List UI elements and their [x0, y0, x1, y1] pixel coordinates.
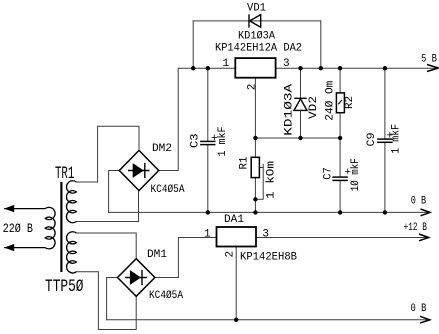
wire DM1 plus output right vertex riser to +12V line: [156, 238, 217, 278]
wire DM2 top vertex AC link to upper secondary top lead: [98, 126, 139, 182]
svg-text:5 B: 5 B: [421, 53, 437, 65]
svg-text:KC4Ø5A: KC4Ø5A: [149, 290, 183, 302]
svg-text:KP142EH8B: KP142EH8B: [240, 252, 297, 264]
wire R1 top lead: [254, 138, 256, 157]
wire 0V rail y=212.4 to arrow: [109, 211, 429, 213]
svg-text:24Ø Om: 24Ø Om: [325, 80, 337, 120]
svg-text:KD1Ø3A: KD1Ø3A: [238, 31, 275, 43]
svg-text:1Ø mkF: 1Ø mkF: [350, 158, 362, 191]
arrow output +12V: [419, 234, 429, 241]
wire upper secondary top lead: [76, 181, 97, 183]
svg-text:2: 2: [246, 84, 258, 91]
junction 0V rail at C9: [383, 210, 387, 214]
transformer TR1 upper secondary winding: [66, 181, 76, 223]
wire R1 trimmer tap: [259, 167, 263, 169]
svg-text:1 mkF: 1 mkF: [217, 127, 229, 157]
diode VD1: [249, 14, 261, 27]
wire upper secondary bottom lead to DM2 bottom vertex: [76, 190, 138, 222]
diode inside DM2: [128, 163, 150, 178]
regulator DA2 box: [235, 58, 275, 78]
junction 0V rail at C7: [338, 210, 342, 214]
wire VD2 branch from bus to cathode bar: [300, 68, 302, 98]
svg-text:DA1: DA1: [224, 214, 244, 226]
arrow output 5V: [427, 65, 438, 72]
junction node line at VD2 anode: [298, 136, 302, 140]
junction 0V rail at C3: [206, 210, 210, 214]
svg-text:1: 1: [204, 228, 211, 240]
svg-text:R1: R1: [239, 156, 251, 169]
capacitor C9 plates: [377, 139, 392, 142]
svg-text:1 kOm: 1 kOm: [266, 161, 278, 199]
svg-text:3: 3: [262, 228, 269, 240]
wire DM2 plus output right vertex to riser: [159, 170, 179, 172]
resistor R1 (trimmer) body: [251, 157, 259, 177]
wire lower secondary top lead to DM1 top vertex: [76, 233, 136, 258]
svg-text:1 mkF: 1 mkF: [391, 124, 403, 154]
rectifier bridge DM2: [119, 150, 158, 190]
wire +12V line DA1 pin3 to arrow: [256, 237, 428, 239]
wire lower secondary bottom lead to DM1 bottom vertex: [76, 272, 136, 330]
wire DM2 minus output: left vertex to 0V rail start: [109, 171, 120, 213]
svg-text:R2: R2: [344, 96, 356, 109]
transformer TR1 lower secondary winding: [67, 232, 77, 273]
wire DM1 minus output left vertex to bottom 0V rail: [107, 278, 117, 320]
svg-text:+12 B: +12 B: [404, 222, 428, 234]
junction node on bus at C3: [206, 66, 210, 70]
svg-text:DM1: DM1: [147, 249, 167, 261]
wire C3 branch x=207.8 bus to top plate: [207, 68, 209, 140]
junction node on bus at R2: [338, 66, 342, 70]
rectifier bridge DM1: [118, 259, 155, 297]
wire VD1 right riser x=320.8 down to bus: [320, 21, 322, 68]
junction node line at R1 top: [253, 136, 257, 140]
capacitor C7 plates: [332, 177, 347, 180]
resistor R2 body: [336, 93, 344, 113]
junction node on bus at VD1 right: [319, 66, 323, 70]
wire C9 bottom plate to 0V rail: [384, 143, 386, 212]
wire R1 trimmer tap bar and down link: [255, 164, 263, 199]
svg-text:0 B: 0 B: [411, 196, 427, 208]
svg-text:DM2: DM2: [152, 143, 172, 155]
wire VD1 top horizontal line: [193, 20, 321, 22]
svg-text:KC4Ø5A: KC4Ø5A: [151, 184, 185, 196]
wire VD1 bypass left riser x=193.2 from bus to top line: [192, 21, 194, 68]
arrow 220V top (left filled): [4, 205, 14, 212]
svg-text:TR1: TR1: [55, 164, 74, 184]
svg-text:3: 3: [283, 58, 290, 70]
wire C7 bottom plate to 0V rail: [339, 182, 341, 213]
diode VD2: [294, 98, 307, 110]
wire R1 bottom lead: [254, 178, 256, 213]
svg-text:TTP5Ø: TTP5Ø: [45, 277, 84, 297]
arrow output 0V lower: [420, 316, 430, 323]
svg-text:C9: C9: [366, 133, 378, 147]
junction node on bus at VD2: [298, 66, 302, 70]
junction node on bus at VD1 left: [191, 66, 195, 70]
wire C9 branch from bus to top plate: [384, 68, 386, 138]
svg-text:C3: C3: [189, 134, 201, 149]
wire DA1 pin2 down to bottom 0V rail: [235, 247, 237, 320]
wire DA2 pin2 down to node line y=138: [254, 78, 256, 138]
wire primary leads 220V: [4, 209, 45, 248]
wire R2 bottom lead to node line: [339, 113, 341, 138]
junction R1 tap joint: [253, 197, 257, 201]
svg-text:VD2: VD2: [308, 96, 320, 119]
wire node line y=138 R1 to R2: [255, 137, 340, 139]
svg-text:2: 2: [225, 251, 237, 258]
wire VD2 anode to node line: [300, 110, 302, 138]
resistor R2 power mark: [338, 100, 342, 104]
diode inside DM1: [125, 270, 147, 285]
wire C3 bottom plate to 0V rail: [207, 146, 209, 213]
junction node line at R2 bottom C7: [338, 136, 342, 140]
wire C7 branch from node line to top plate: [339, 138, 341, 176]
svg-text:KP142EH12A DA2: KP142EH12A DA2: [215, 43, 302, 55]
transformer TR1 core: [60, 182, 62, 272]
wire bottom 0V rail y=319.8 to arrow: [107, 319, 429, 321]
svg-text:KD1Ø3A: KD1Ø3A: [284, 83, 296, 136]
wire R2 top lead from bus: [339, 68, 341, 93]
arrow 220V bottom (left filled): [4, 244, 14, 251]
arrow output 0V upper: [421, 209, 431, 216]
junction bottom 0V rail at DA1 pin2: [234, 318, 238, 322]
svg-text:C7: C7: [323, 167, 335, 180]
junction node on bus at C9: [383, 66, 387, 70]
wire 5V bus from DM2+ corner to DA2 pin1: [178, 68, 235, 170]
regulator DA1 box: [217, 227, 257, 247]
svg-text:0 B: 0 B: [411, 303, 427, 315]
transformer TR1 primary winding: [45, 207, 55, 249]
junction 0V rail at R1: [253, 210, 257, 214]
svg-text:22Ø B: 22Ø B: [3, 222, 34, 236]
wire 5V bus from DA2 pin3 to arrow: [276, 67, 437, 69]
capacitor C3 plates: [200, 141, 215, 144]
svg-text:VD1: VD1: [247, 3, 266, 15]
svg-text:1: 1: [223, 58, 230, 70]
